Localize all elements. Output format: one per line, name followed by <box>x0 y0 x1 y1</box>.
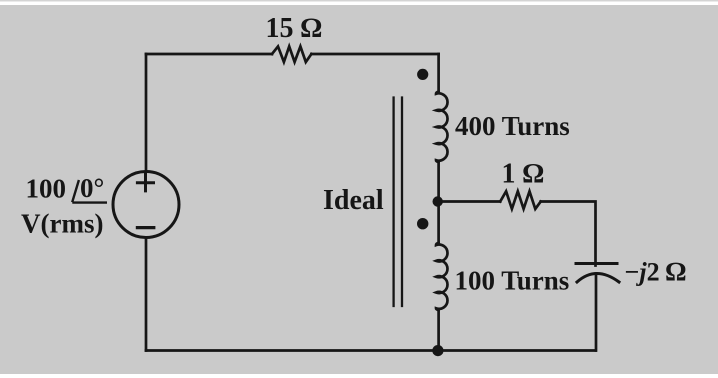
transformer ideal core line left <box>392 98 394 307</box>
inductor L2 secondary coil 100 turns <box>436 243 447 310</box>
wire: left vertical, source bottom to bottom-left corner <box>145 238 148 351</box>
wire: middle horizontal from node to 1ohm resistor <box>439 200 501 203</box>
node dot middle junction <box>433 196 443 206</box>
voltage source minus sign <box>137 226 153 229</box>
svg-text:−j2: −j2 <box>625 258 660 287</box>
angle symbol underline <box>72 201 107 203</box>
wire: top horizontal left segment <box>146 53 272 56</box>
transformer ideal core line right <box>401 98 403 307</box>
inductor L1 primary coil 400 turns <box>436 92 448 163</box>
angle symbol slash <box>72 180 79 202</box>
wire: capacitor bottom to bottom wire <box>595 274 598 351</box>
wire: vertical between coils through middle node <box>437 162 440 243</box>
polarity dot lower (secondary) <box>417 218 428 229</box>
wire: middle horizontal to right corner and down to capacitor <box>541 202 596 266</box>
svg-text:V(rms): V(rms) <box>21 209 103 239</box>
capacitor C1 top plate <box>576 262 617 265</box>
polarity dot upper (primary) <box>417 69 428 80</box>
wire: top horizontal right segment <box>311 53 438 56</box>
voltage source plus sign <box>137 174 153 191</box>
svg-text:15 Ω: 15 Ω <box>266 13 323 44</box>
wire: bottom horizontal <box>146 349 596 352</box>
voltage source VS circle <box>113 172 179 238</box>
wire: right vertical into primary coil <box>437 54 440 92</box>
svg-text:Ideal: Ideal <box>323 185 384 216</box>
node dot bottom junction <box>432 345 443 356</box>
capacitor C1 curved bottom plate <box>577 274 619 283</box>
wire: vertical from secondary coil to bottom node <box>437 310 440 350</box>
svg-text:100 Turns: 100 Turns <box>455 266 570 296</box>
svg-text:1 Ω: 1 Ω <box>502 158 545 189</box>
wire: left vertical, source top to top-left corner <box>145 54 148 172</box>
svg-text:Ω: Ω <box>666 257 687 287</box>
svg-text:400 Turns: 400 Turns <box>455 111 570 141</box>
svg-text:0°: 0° <box>80 173 104 203</box>
svg-text:100: 100 <box>26 174 67 204</box>
resistor R2 1ohm zigzag <box>500 191 541 209</box>
resistor R1 15ohm zigzag <box>272 46 311 62</box>
